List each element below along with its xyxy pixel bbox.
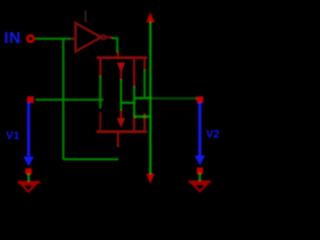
wire bbox=[152, 97, 197, 99]
wire bbox=[63, 158, 118, 160]
op-amp U1 inverter bbox=[70, 11, 113, 52]
wire bbox=[149, 22, 151, 175]
ground bbox=[18, 182, 41, 191]
wire bbox=[28, 174, 30, 182]
wire bbox=[99, 76, 101, 109]
wire bbox=[62, 39, 64, 160]
junction bbox=[197, 168, 203, 174]
source V1 bbox=[6, 103, 34, 167]
svg-text:V1: V1 bbox=[6, 130, 19, 142]
wire bbox=[121, 102, 136, 104]
junction left port bbox=[27, 96, 34, 103]
source V2 bbox=[195, 103, 220, 166]
wire bbox=[36, 38, 76, 40]
junction bbox=[25, 168, 31, 174]
svg-text:IN: IN bbox=[4, 30, 21, 47]
wire bbox=[112, 38, 117, 52]
wire bbox=[120, 80, 122, 111]
transistor Q2 NMOS bbox=[97, 109, 148, 147]
wire bbox=[36, 99, 104, 101]
junction right port bbox=[197, 96, 204, 103]
svg-text:V2: V2 bbox=[206, 129, 219, 141]
port IN bbox=[27, 36, 33, 42]
wire bbox=[133, 87, 135, 117]
wire bbox=[134, 115, 151, 117]
wire bbox=[134, 97, 152, 99]
arrow top bbox=[146, 12, 154, 22]
wire bbox=[144, 70, 146, 99]
transistor Q1 PMOS bbox=[97, 52, 148, 88]
arrow bottom bbox=[146, 174, 154, 184]
ground bbox=[189, 182, 211, 191]
wire bbox=[199, 174, 201, 182]
